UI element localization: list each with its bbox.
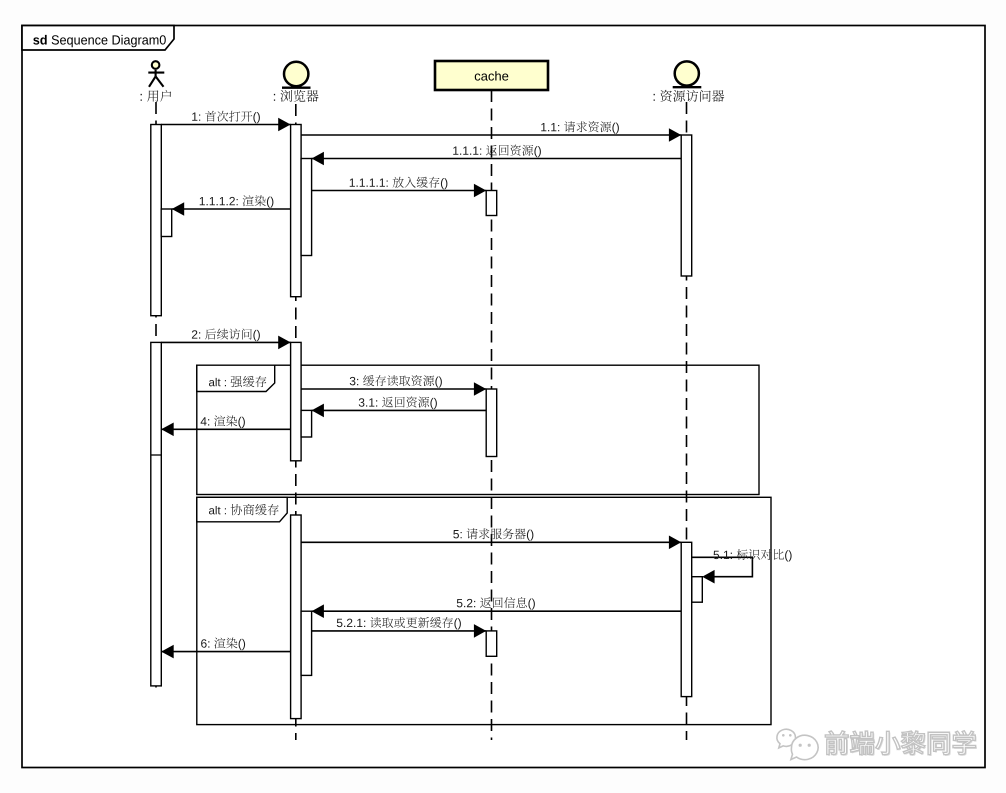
message: 5.1 identifier compare (self) [692,557,753,576]
activation: browser bar2 nested [301,410,312,437]
message: 2 subsequent visit [161,341,290,343]
activation: browser bar3 nested [301,611,312,675]
message: 5.2 return info [312,610,682,612]
activation: browser bar1 nested [301,159,312,256]
lifeline: user [155,102,157,690]
activation: resource bar 1 [681,135,692,276]
alt fragment: strong cache [197,365,759,494]
lifeline: resource accessor [686,102,688,740]
watermark text [826,732,976,756]
activation: browser bar 2 [291,342,302,460]
message: 1.1.1 return resource [312,158,682,160]
message: 3.1 return resource [312,409,487,411]
message: 5.2.1 read or update cache [312,630,487,632]
activation: user bar 2 [151,342,162,686]
entity: resource accessor [675,61,699,85]
activation: cache bar 1 [486,191,497,216]
entity: browser [284,62,308,86]
activation: cache bar 2 [486,389,497,457]
actor: user [148,61,164,87]
activation: user bar1 nested [161,209,172,237]
lifeline: cache [491,90,493,740]
frame title pentagon: sd Sequence Diagram0 [22,26,174,51]
message: 6 render [161,651,290,653]
activation: browser bar 1 [291,125,302,297]
activation: resource bar2 nested [692,577,703,603]
object: cache [435,61,548,90]
activation: cache bar 3 [486,631,497,656]
activation: user bar 1 [151,125,162,316]
watermark: wechat logo [777,729,818,759]
user bar divider [151,454,161,456]
message: 3 cache read resource [301,388,486,390]
activation: resource bar 2 [681,542,692,696]
lifeline: browser [295,104,297,740]
message: 5 request server [301,541,681,543]
message: 1 first open [161,124,290,126]
message: 1.1.1.2 render [172,208,291,210]
message: 1.1 request resource [301,134,681,136]
message: 4 render [161,428,290,430]
activation: browser bar 3 [291,515,302,719]
alt fragment: negotiated cache [197,497,771,724]
message: 1.1.1.1 put in cache [312,190,487,192]
